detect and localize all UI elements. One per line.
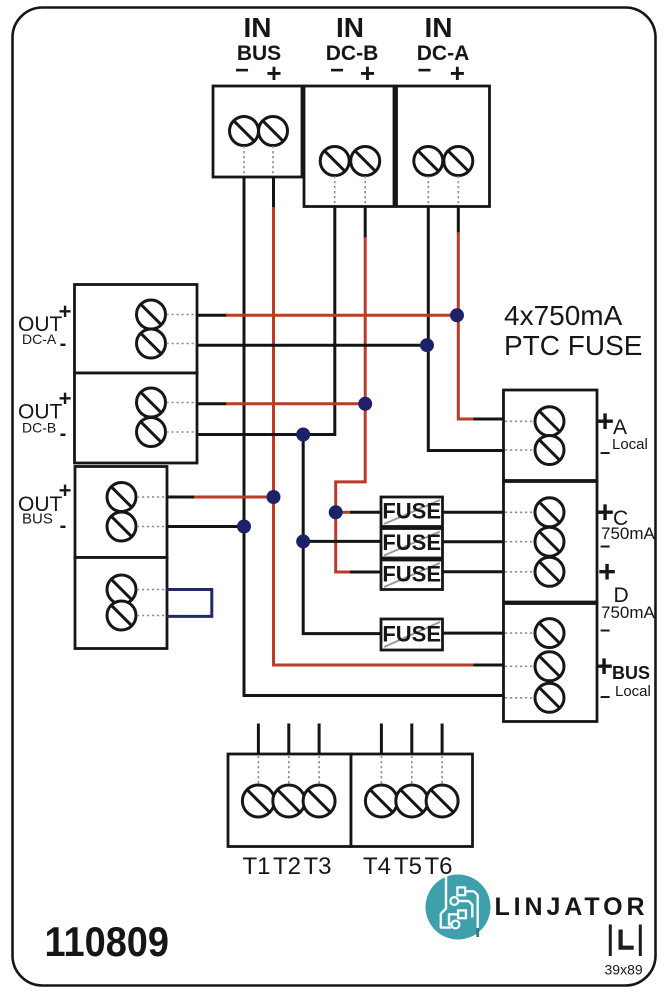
wire OUT BUS+ black stub	[167, 496, 195, 499]
junction node DC-B minus	[296, 428, 310, 442]
junction node BUS plus	[267, 490, 281, 504]
svg-text:T6: T6	[424, 853, 452, 880]
wire IN DC-B- to OUT DC-B-	[197, 207, 335, 435]
terminal block J8 A Local	[504, 390, 598, 481]
svg-text:FUSE: FUSE	[382, 622, 441, 647]
svg-text:−: −	[235, 57, 249, 84]
svg-text:+: +	[595, 649, 613, 684]
junction node DC-B plus	[358, 397, 372, 411]
wire IN DC-B+ red run to fuses F1 F3	[336, 237, 366, 572]
logo L mark	[609, 925, 642, 957]
svg-text:IN: IN	[336, 12, 364, 43]
junction node DC-A plus	[450, 308, 464, 322]
wire OUT BUS- run	[167, 525, 244, 528]
svg-text:750mA: 750mA	[601, 603, 656, 622]
fuse F1	[381, 497, 443, 527]
wire black stub into +BUS terminal	[474, 664, 504, 667]
svg-text:FUSE: FUSE	[382, 530, 441, 555]
svg-text:+: +	[266, 58, 281, 88]
label 4x750mA PTC FUSE	[504, 300, 642, 361]
wire T5 stub	[410, 724, 413, 755]
svg-text:DC-A: DC-A	[22, 331, 57, 347]
svg-text:FUSE: FUSE	[382, 562, 441, 587]
label A Local	[596, 404, 648, 464]
fuse F4	[381, 619, 443, 650]
svg-text:T3: T3	[303, 853, 331, 880]
svg-text:+: +	[59, 478, 72, 503]
svg-text:PTC FUSE: PTC FUSE	[504, 330, 642, 361]
svg-text:−: −	[330, 57, 344, 84]
terminal block J5 OUT DC-B	[75, 373, 198, 463]
terminal block J9 C 750mA	[504, 482, 598, 603]
label D 750mA BUS Local	[595, 584, 656, 707]
svg-text:Local: Local	[615, 683, 651, 700]
label LINJATOR	[495, 893, 649, 921]
wire OUT DC-A- run	[197, 344, 427, 347]
label T1 T2 T3	[242, 853, 331, 880]
wire T6 stub	[441, 724, 444, 755]
label IN BUS	[235, 12, 282, 88]
svg-text:-: -	[60, 333, 67, 355]
wire DC-B- branch to fuses F2 F4	[303, 435, 381, 634]
terminal block J6 OUT BUS	[75, 467, 167, 558]
terminal block J7 spare	[75, 558, 167, 649]
label 39x89	[605, 962, 643, 978]
wire T1 stub	[257, 724, 260, 755]
wire black stub into A+ terminal	[474, 418, 504, 421]
label T4 T5 T6	[363, 853, 453, 880]
svg-text:−: −	[600, 443, 611, 463]
wire OUT DC-B+ black stub	[197, 402, 227, 405]
svg-text:110809: 110809	[45, 918, 170, 965]
label C 750mA	[596, 495, 656, 590]
svg-text:IN: IN	[244, 12, 272, 43]
wire IN DC-A+ stub black	[457, 207, 460, 234]
wire OUT DC-A+ red run	[226, 314, 457, 317]
svg-text:LINJATOR: LINJATOR	[495, 893, 649, 921]
wire IN BUS+ stub black	[272, 177, 275, 208]
wire black stub into fuse F3	[350, 571, 381, 574]
junction node DC-A minus	[420, 338, 434, 352]
label 110809	[45, 918, 170, 965]
label OUT BUS	[18, 478, 71, 537]
wire fuse F3 output to C plus	[443, 570, 504, 573]
svg-text:IN: IN	[425, 12, 453, 43]
logo LINJATOR icon	[426, 874, 491, 940]
wire T4 stub	[380, 724, 383, 755]
svg-text:T4: T4	[363, 853, 391, 880]
wire IN BUS- to OUT BUS- and D block Local-	[244, 177, 504, 696]
svg-text:+: +	[59, 386, 72, 411]
wire fuse F1 output to C+	[443, 511, 504, 514]
svg-text:+: +	[360, 58, 375, 88]
fuse F2	[381, 529, 443, 559]
wire IN DC-A- to OUT DC-A- and A block minus	[428, 207, 503, 451]
junction node fuse F1 tap	[329, 505, 343, 519]
terminal block J2 IN DC-B	[304, 86, 394, 207]
svg-text:−: −	[417, 57, 431, 84]
svg-text:4x750mA: 4x750mA	[504, 300, 623, 331]
svg-text:−: −	[600, 621, 611, 641]
svg-text:-: -	[60, 423, 67, 445]
terminal block J1 IN BUS	[213, 86, 302, 177]
wire IN DC-B+ stub black	[364, 207, 367, 239]
terminal block J3 IN DC-A	[397, 86, 490, 207]
svg-text:39x89: 39x89	[605, 962, 643, 978]
wire IN BUS+ red run to D block +BUS	[274, 207, 475, 665]
wire OUT BUS+ red run	[194, 496, 274, 499]
wire fuse F2 output to C-	[443, 540, 504, 543]
label IN DC-A	[417, 12, 470, 88]
svg-text:BUS: BUS	[612, 663, 650, 683]
svg-text:BUS: BUS	[22, 511, 53, 528]
svg-text:−: −	[600, 687, 611, 707]
jumper wire loop on spare block	[167, 590, 212, 617]
wire fuse F4 output to D-	[443, 632, 504, 635]
svg-text:T2: T2	[273, 853, 301, 880]
wire OUT DC-A+ black stub	[197, 314, 227, 317]
svg-text:FUSE: FUSE	[382, 499, 441, 524]
svg-text:T5: T5	[394, 853, 422, 880]
terminal block J12 T4 T5 T6	[351, 754, 473, 847]
svg-text:DC-B: DC-B	[22, 420, 56, 436]
fuse F3	[381, 560, 443, 590]
svg-text:+: +	[450, 58, 465, 88]
wire black stub into fuse F1	[350, 511, 381, 514]
junction node fuse F2 tap	[296, 534, 310, 548]
label OUT DC-B	[18, 386, 71, 445]
wire T3 stub	[318, 724, 321, 755]
label OUT DC-A	[18, 299, 71, 355]
terminal block J11 T1 T2 T3	[228, 754, 351, 847]
svg-text:Local: Local	[612, 436, 648, 453]
terminal block J4 OUT DC-A	[75, 285, 198, 374]
svg-text:-: -	[60, 515, 67, 537]
wire T2 stub	[287, 724, 290, 755]
wire IN DC-A+ red run to A block plus	[458, 232, 474, 419]
wire OUT DC-B+ red run	[226, 402, 365, 405]
label IN DC-B	[326, 12, 379, 88]
terminal block J10 D BUS Local	[504, 604, 598, 722]
svg-text:+: +	[596, 404, 614, 439]
junction node BUS minus	[237, 520, 251, 534]
svg-text:+: +	[59, 299, 72, 324]
svg-text:T1: T1	[242, 853, 270, 880]
